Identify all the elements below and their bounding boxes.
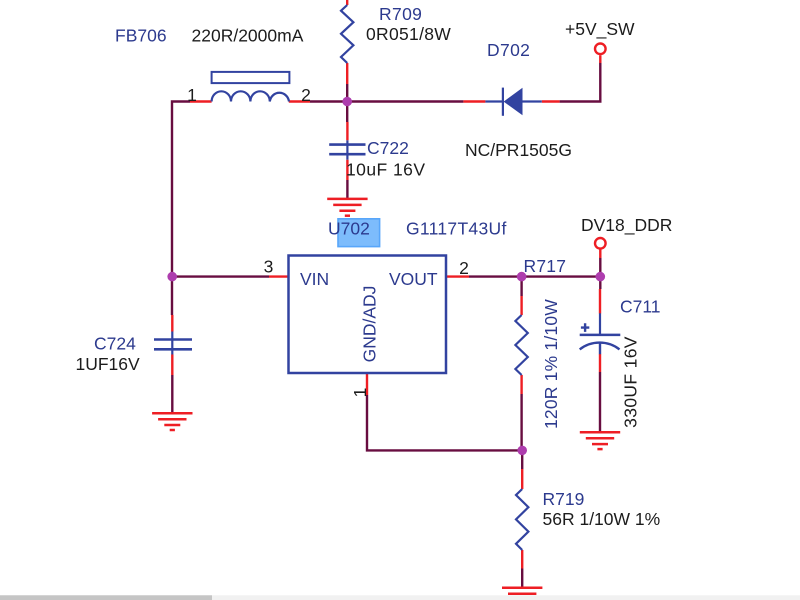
wire R709 bottom to junction A to C722 [346,84,348,122]
ferrite bead FB706 body rectangle [212,72,290,83]
wire GND/ADJ pin1 L-shape to junction D [367,395,522,450]
wire junction B down to R717 [520,277,522,296]
pin lead +5V_SW terminal red stub [599,55,601,63]
capacitor C711 curved bottom plate [580,343,620,350]
ferrite bead FB706 coil [212,91,289,101]
capacitor C711 plus sign [581,323,589,332]
svg-text:330UF 16V: 330UF 16V [621,336,641,428]
scrollbar thumb [0,595,212,600]
svg-text:VIN: VIN [300,269,329,289]
ground symbol below C722 [327,199,367,216]
wire junction D down to R719 [521,450,523,469]
svg-text:1: 1 [350,388,370,398]
wire top rail between FB706 pin2 and D702 anode [310,100,463,102]
svg-text:NC/PR1505G: NC/PR1505G [465,140,572,160]
svg-text:10uF 16V: 10uF 16V [346,160,426,180]
wire top-left rail from FB706 pin1 down left side [172,102,190,316]
svg-text:VOUT: VOUT [389,269,438,289]
wire DV18_DDR terminal down to junction C [599,258,601,277]
svg-text:GND/ADJ: GND/ADJ [360,286,380,363]
pin lead R719 top red [521,469,523,489]
wire R719 bottom to ground [521,569,523,588]
svg-text:G1117T43Uf: G1117T43Uf [406,219,507,239]
wire C724 to ground [171,375,173,413]
capacitor C724 blue stub [171,332,173,355]
svg-text:DV18_DDR: DV18_DDR [581,215,672,236]
wire pin3 horizontal VIN net [172,275,269,277]
pin lead D702 cathode red [542,100,560,102]
capacitor C711 top plate [580,334,621,337]
pin lead R709 top red [346,0,348,5]
svg-text:220R/2000mA: 220R/2000mA [192,26,304,46]
svg-text:3: 3 [264,257,274,277]
node junction D adj net [517,446,527,456]
pin lead R717 bottom red [520,375,522,394]
svg-text:+5V_SW: +5V_SW [565,19,635,40]
ground symbol below C724 [152,413,192,430]
pin lead C724 bottom red [171,355,173,376]
wire C711 to ground [599,372,601,432]
pin lead D702 anode red [463,100,485,102]
svg-text:56R 1/10W 1%: 56R 1/10W 1% [543,509,661,529]
pin lead FB706 pin2 red [289,100,310,102]
node junction A top rail [342,97,352,107]
diode D702 blue lead left [485,100,503,102]
resistor R719 zigzag [516,489,528,550]
capacitor C724 plates [154,340,192,350]
op-amp U702 regulator body box [289,256,447,374]
capacitor C722 blue stub [346,140,348,159]
resistor R717 zigzag [515,315,527,375]
svg-text:D702: D702 [487,40,530,60]
svg-text:FB706: FB706 [115,26,167,46]
svg-text:R717: R717 [524,256,567,276]
pin lead C711 bottom red [599,354,601,372]
svg-text:2: 2 [301,85,311,105]
capacitor C722 plates [329,145,365,155]
terminal +5V_SW circle [595,44,606,55]
pin lead C724 top red [171,315,173,332]
terminal DV18_DDR circle [595,238,606,249]
svg-text:1UF16V: 1UF16V [76,354,141,374]
diode D702 triangle [504,88,523,116]
node junction C DV18_DDR [596,272,606,282]
highlight box behind U702 [338,219,380,247]
pin lead U702 pin3 red [269,275,289,277]
capacitor C711 bottom stub [599,343,601,355]
pin lead C722 top red [346,122,348,140]
svg-text:0R051/8W: 0R051/8W [366,24,451,44]
pin lead U702 pin1 red [366,374,368,395]
diode D702 blue lead right [523,100,542,102]
node junction B R717 top [517,272,527,282]
svg-text:C722: C722 [367,138,409,158]
pin lead R717 top red [520,296,522,315]
svg-text:U702: U702 [328,219,370,239]
pin lead C722 bottom red [346,160,348,180]
ground symbol below C711 [580,432,620,449]
capacitor C711 top blue lead [599,313,601,335]
pin lead R709 bottom red [346,63,348,84]
node junction left VIN net [167,272,177,282]
pin lead R719 bottom red [521,550,523,569]
svg-text:R719: R719 [543,489,585,509]
svg-text:R709: R709 [379,4,422,24]
svg-text:C711: C711 [620,297,661,317]
svg-text:1: 1 [187,85,197,105]
pin lead C711 top red [599,289,601,314]
wire C722 to ground [346,180,348,199]
svg-text:120R 1% 1/10W: 120R 1% 1/10W [541,299,561,429]
resistor R709 zigzag [341,5,353,63]
scrollbar track [0,595,800,600]
wire junction C down to C711 [599,277,601,289]
diode D702 cathode bar [502,88,504,116]
pin lead DV18_DDR terminal red stub [599,250,601,259]
wire R717 bottom to junction D [520,394,522,450]
ground symbol below R719 [502,588,542,594]
wire from D702 cathode to +5V_SW corner [560,63,601,102]
pin lead FB706 pin1 red [190,100,212,102]
pin lead U702 pin2 red [446,275,469,277]
svg-text:2: 2 [459,258,469,278]
svg-text:C724: C724 [94,334,136,354]
wire VOUT pin2 horizontal to DV18_DDR column [469,275,600,277]
